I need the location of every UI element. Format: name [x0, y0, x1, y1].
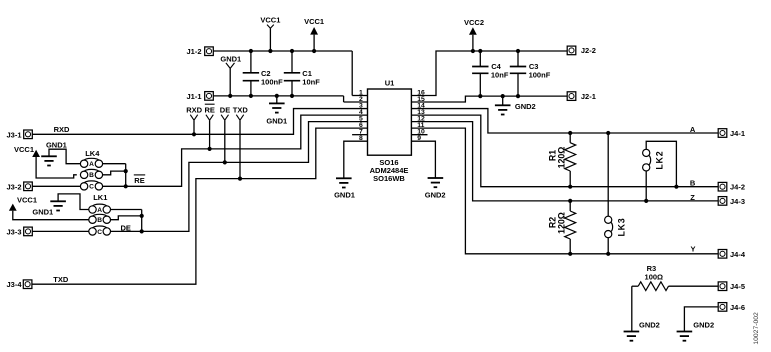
wire GND2 rail [411, 96, 567, 102]
junction [275, 94, 279, 98]
resistor R3 100ohm [632, 264, 718, 291]
wire GND1 rail [214, 96, 368, 102]
svg-text:J4-1: J4-1 [730, 129, 745, 138]
junction [249, 94, 253, 98]
node TXD tag [233, 106, 249, 179]
pin 2 [359, 96, 363, 103]
svg-text:J4-5: J4-5 [730, 282, 745, 291]
wire LK4 bus [125, 164, 127, 187]
svg-text:GND2: GND2 [693, 321, 714, 330]
wire [344, 141, 368, 178]
power GND1 tag [220, 55, 241, 96]
capacitor C4 [472, 51, 509, 96]
wire RXD [33, 109, 368, 135]
svg-text:J2-2: J2-2 [581, 46, 596, 55]
wire [411, 141, 435, 178]
svg-text:120Ω: 120Ω [556, 212, 566, 234]
svg-text:J4-6: J4-6 [730, 303, 745, 312]
pin 6 [359, 122, 363, 129]
wire [33, 185, 81, 187]
power VCC1 [304, 17, 324, 51]
svg-text:10027-002: 10027-002 [753, 312, 760, 345]
node Y [690, 245, 695, 254]
svg-text:J3-3: J3-3 [7, 227, 22, 236]
connector J1-1 [186, 92, 213, 101]
junction [238, 177, 242, 181]
junction [478, 94, 482, 98]
pin 7 stub [352, 134, 367, 136]
wire [103, 171, 126, 175]
node DE [120, 223, 130, 232]
wire RE [103, 115, 368, 186]
wire LK1 bus [141, 210, 143, 232]
svg-text:C2: C2 [261, 69, 271, 78]
wire [684, 307, 718, 332]
svg-text:GND2: GND2 [639, 321, 660, 330]
pin 4 [359, 109, 363, 116]
junction [606, 131, 610, 135]
ground GND1 [334, 178, 355, 199]
connector J3-2 [7, 182, 33, 191]
wire [33, 230, 89, 232]
junction [124, 169, 128, 173]
wire [645, 171, 647, 201]
pin 7 [359, 128, 363, 135]
jumper LK4 [80, 149, 102, 191]
wire Y [411, 128, 718, 254]
pin 11 [417, 122, 424, 129]
svg-text:VCC1: VCC1 [17, 195, 37, 204]
pin 12 [417, 115, 425, 122]
svg-text:GND1: GND1 [32, 207, 53, 216]
svg-text:J1-1: J1-1 [186, 92, 201, 101]
wire VCC2 rail [411, 51, 567, 96]
pin 13 [417, 109, 425, 116]
svg-text:120Ω: 120Ω [556, 147, 566, 169]
junction [223, 160, 227, 164]
junction [208, 147, 212, 151]
svg-text:SO16WB: SO16WB [373, 174, 405, 183]
svg-text:VCC2: VCC2 [464, 18, 484, 27]
jumper LK3 [605, 216, 627, 238]
wire [111, 209, 142, 211]
junction [124, 184, 128, 188]
U1 package text [370, 158, 409, 183]
pin 16 [417, 89, 425, 96]
wire [607, 133, 609, 216]
power VCC1 [260, 16, 280, 51]
node RE [134, 175, 145, 185]
pin 1 [359, 89, 363, 96]
junction [140, 229, 144, 233]
svg-text:J2-1: J2-1 [581, 92, 596, 101]
ground GND2 [495, 96, 536, 114]
power VCC1 [14, 145, 40, 157]
svg-text:10nF: 10nF [491, 70, 509, 79]
node A [690, 125, 696, 134]
svg-text:C1: C1 [302, 69, 312, 78]
svg-text:A: A [97, 207, 102, 214]
svg-text:DE: DE [220, 106, 230, 115]
svg-text:LK2: LK2 [655, 151, 665, 170]
ground GND1 [32, 201, 66, 216]
svg-text:DE: DE [120, 223, 130, 232]
svg-text:VCC1: VCC1 [14, 145, 34, 154]
op-amp U1 ADM2484E [368, 79, 412, 156]
connector J4-6 [718, 303, 745, 312]
ground GND1 [266, 96, 287, 126]
label 10027-002 [753, 312, 760, 345]
power VCC1 [9, 195, 37, 210]
node Z [690, 193, 695, 202]
junction [501, 94, 505, 98]
junction [228, 94, 232, 98]
node RXD tag [186, 106, 202, 135]
wire [607, 238, 609, 254]
svg-text:GND1: GND1 [220, 55, 241, 64]
svg-text:C: C [97, 229, 102, 236]
junction [290, 94, 294, 98]
svg-text:VCC1: VCC1 [260, 16, 280, 25]
capacitor C3 [510, 51, 551, 96]
ground GND1 [41, 140, 67, 165]
pin 5 [359, 115, 363, 122]
pin 8 [359, 135, 363, 142]
node TXD [53, 275, 69, 284]
junction [516, 94, 520, 98]
junction [516, 49, 520, 53]
svg-text:C: C [89, 184, 94, 191]
svg-text:J4-3: J4-3 [730, 197, 745, 206]
junction [140, 214, 144, 218]
svg-text:RXD: RXD [186, 106, 202, 115]
svg-text:J1-2: J1-2 [186, 47, 201, 56]
svg-text:GND1: GND1 [334, 190, 355, 199]
junction [478, 49, 482, 53]
pin 10 [417, 128, 425, 135]
capacitor C1 [284, 51, 320, 96]
junction [606, 252, 610, 256]
connector J4-2 [718, 182, 745, 191]
svg-text:J3-1: J3-1 [7, 130, 22, 139]
pin 14 [417, 102, 425, 109]
connector J1-2 [186, 47, 213, 56]
junction [644, 199, 648, 203]
junction [568, 185, 572, 189]
svg-text:J3-4: J3-4 [7, 280, 23, 289]
power VCC2 [464, 18, 484, 51]
svg-text:U1: U1 [385, 79, 395, 88]
svg-text:J4-4: J4-4 [730, 250, 746, 259]
wire [103, 163, 126, 165]
connector J4-3 [718, 197, 745, 206]
junction [312, 49, 316, 53]
svg-text:A: A [89, 161, 94, 168]
svg-text:B: B [690, 179, 696, 188]
junction [471, 49, 475, 53]
svg-text:10nF: 10nF [302, 78, 320, 87]
svg-text:VCC1: VCC1 [304, 17, 324, 26]
wire [13, 211, 89, 220]
svg-text:RE: RE [134, 176, 144, 185]
svg-text:GND1: GND1 [266, 117, 287, 126]
junction [249, 49, 253, 53]
connector J2-1 [567, 92, 596, 101]
connector J3-4 [7, 280, 32, 289]
resistor R2 120ohm [548, 201, 576, 254]
ground GND2 [624, 321, 660, 341]
pin 10 stub [411, 134, 427, 136]
wire [646, 141, 676, 186]
svg-text:RXD: RXD [54, 125, 70, 134]
pin 15 [417, 96, 425, 103]
capacitor C2 [243, 51, 283, 96]
connector J4-5 [718, 282, 745, 291]
svg-text:GND2: GND2 [515, 102, 536, 111]
node B [690, 179, 696, 188]
ground GND2 [677, 321, 715, 341]
wire [631, 286, 633, 331]
connector J3-1 [7, 130, 33, 139]
wire [36, 157, 77, 178]
jumper LK1 [89, 193, 111, 236]
wire A [411, 109, 718, 133]
node RXD [54, 125, 70, 134]
connector J2-2 [567, 46, 596, 55]
svg-text:A: A [690, 125, 696, 134]
jumper LK2 [643, 149, 665, 171]
svg-text:B: B [97, 217, 102, 224]
wire B [411, 115, 718, 187]
svg-text:Y: Y [690, 245, 695, 254]
wire TXD [32, 128, 367, 284]
wire DE [111, 122, 368, 232]
junction [674, 185, 678, 189]
wire VCC1 rail [214, 51, 368, 96]
connector J3-3 [7, 227, 33, 236]
resistor R1 120ohm [548, 133, 576, 187]
svg-text:LK4: LK4 [85, 149, 100, 158]
wire [58, 194, 89, 210]
junction [568, 252, 572, 256]
connector J4-4 [718, 250, 746, 259]
svg-text:TXD: TXD [233, 106, 249, 115]
ground GND2 [425, 178, 446, 199]
svg-text:LK3: LK3 [617, 217, 627, 236]
connector J4-1 [718, 129, 745, 138]
pin 9 [417, 135, 421, 142]
svg-text:100Ω: 100Ω [645, 273, 664, 282]
svg-text:Z: Z [690, 193, 695, 202]
junction [568, 131, 572, 135]
svg-text:B: B [89, 172, 94, 179]
wire [49, 149, 80, 164]
junction [568, 199, 572, 203]
svg-text:TXD: TXD [53, 275, 69, 284]
junction [268, 49, 272, 53]
svg-text:100nF: 100nF [261, 78, 283, 87]
svg-text:J3-2: J3-2 [7, 182, 22, 191]
svg-text:GND1: GND1 [46, 140, 67, 149]
node RE tag [204, 104, 214, 149]
node DE tag [220, 106, 230, 163]
wire Z [411, 122, 718, 201]
svg-text:100nF: 100nF [529, 70, 551, 79]
wire [111, 216, 142, 220]
junction [192, 132, 196, 136]
svg-text:RE: RE [204, 106, 214, 115]
svg-text:J4-2: J4-2 [730, 183, 745, 192]
svg-text:GND2: GND2 [425, 190, 446, 199]
pin 3 [359, 102, 363, 109]
junction [290, 49, 294, 53]
svg-text:LK1: LK1 [93, 193, 107, 202]
